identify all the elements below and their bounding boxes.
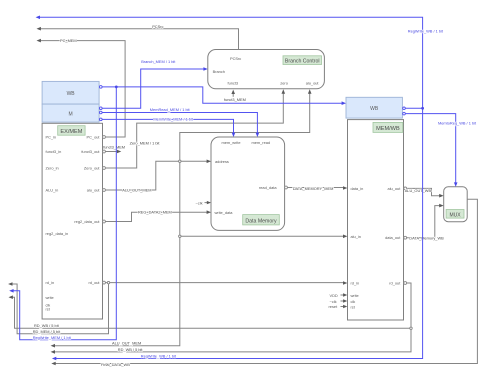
EX/MEM pipeline register U1 (main box) [42,123,102,319]
svg-text:WB: WB [67,91,76,97]
Branch Control U3 [208,50,325,89]
svg-text:WB: WB [370,106,379,112]
svg-text:Final_DATA_WB: Final_DATA_WB [101,362,130,367]
svg-text:write_data: write_data [215,210,234,215]
svg-text:~clk: ~clk [330,299,337,304]
svg-text:clk: clk [351,299,356,304]
svg-text:EX/MEM: EX/MEM [60,129,82,135]
svg-text:PC_out: PC_out [87,135,101,140]
svg-text:rd_out: rd_out [88,280,100,285]
MUX U5 [444,187,468,222]
svg-text:funct3_MEM: funct3_MEM [103,144,125,149]
EX/MEM pipeline register U1 (M control box) [42,104,99,122]
svg-text:reset: reset [329,304,339,309]
svg-text:Branch Control: Branch Control [285,59,320,65]
svg-text:MUX: MUX [449,212,461,218]
wire MemRead_MEM: EX/MEM.M to Data Memory.mem_read [102,113,259,138]
svg-text:RD_WB / 5 bit: RD_WB / 5 bit [118,347,144,352]
wire DATA_Memory_WB: MEM/WB.data_out to MUX input 2 [407,204,444,238]
wire WB control bundle: EX/MEM.WB to MEM/WB.WB [102,87,346,105]
svg-text:VDD: VDD [330,293,338,298]
wire DATA_MEMORY_MEM: Data Memory.read_data to MEM/WB.data_in [287,186,347,190]
svg-text:DATA_Memory_WB: DATA_Memory_WB [409,235,444,240]
wire MemtoReg_WB: MEM/WB.WB to MUX select [405,114,457,187]
node junction rd_mem [107,281,109,283]
MEM/WB stub ~clk [330,299,348,304]
svg-text:reg2_data_in: reg2_data_in [46,231,69,236]
MEM/WB port labels right [385,186,401,286]
svg-text:write: write [351,293,359,298]
EX/MEM port labels right [74,135,100,286]
svg-text:alu_out: alu_out [306,81,320,86]
svg-text:RegWrite_WB / 1 bit: RegWrite_WB / 1 bit [408,28,444,33]
MEM/WB stub reset [329,304,348,309]
wire funct3_MEM stub into Branch Control.funct3 [231,90,235,97]
wire ALU_OUT_MEM branch to Branch Control.alu_out [180,89,312,161]
svg-text:RD_WB / 5 bit: RD_WB / 5 bit [34,323,60,328]
wire ALU_OUT_MEM: EX/MEM.alu_out to Data Memory.address [105,160,211,191]
svg-text:alu_out: alu_out [388,186,402,191]
MEM/WB output port circles [403,107,407,284]
EX/MEM output port circles [100,86,106,284]
svg-text:PCSrc: PCSrc [230,56,241,61]
node junction alu address [179,160,181,162]
svg-text:alu_out: alu_out [87,188,101,193]
svg-text:funct3_MEM: funct3_MEM [224,97,246,102]
wire ALU_OUT_MEM branch down to MEM/WB.alu_in and to ID stage [51,161,348,347]
svg-text:MemtoReg_WB / 1 bit: MemtoReg_WB / 1 bit [438,121,477,126]
wire Zero_MEM: EX/MEM.Zero_out to Branch Control.zero [105,89,285,168]
wire funct3_MEM stub from EX/MEM.funct3_out [105,150,121,154]
svg-text:MemWrite_MEM / 1 bit: MemWrite_MEM / 1 bit [153,117,193,122]
wire RegWrite_WB: MEM/WB.WB to IF and ID stage [36,15,423,360]
svg-text:rd_out: rd_out [389,281,401,286]
svg-text:address: address [215,159,229,164]
wire PCSrc: Branch Control to IF stage [37,27,239,50]
svg-text:RegWrite_MEM / 1 bit: RegWrite_MEM / 1 bit [33,335,72,340]
svg-text:data_out: data_out [385,235,401,240]
svg-text:PC_in: PC_in [46,135,57,140]
node junction rd_wb [410,327,412,329]
svg-text:funct3_out: funct3_out [81,149,100,154]
EX/MEM pipeline register U1 (WB control box) [42,81,99,104]
svg-text:MEM/WB: MEM/WB [376,126,400,132]
svg-text:Branch_MEM / 1 bit: Branch_MEM / 1 bit [141,59,176,64]
Data Memory U4 [211,137,287,230]
node junction regwrite_wb [421,107,424,110]
svg-text:MemRead_MEM / 1 bit: MemRead_MEM / 1 bit [150,107,191,112]
svg-text:RegWrite_WB / 1 bit: RegWrite_WB / 1 bit [141,354,177,359]
svg-text:ALU_OUT_MEM: ALU_OUT_MEM [122,188,151,193]
svg-text:data_in: data_in [351,186,364,191]
wire RD_MEM: EX/MEM.rd_out to MEM/WB.rd_in and ID stage [8,281,347,334]
svg-text:ALU_OUT_WB: ALU_OUT_WB [405,188,432,193]
svg-text:Data Memory: Data Memory [245,218,277,224]
svg-text:M: M [69,111,73,117]
svg-text:Zero_MEM / 1 bit: Zero_MEM / 1 bit [130,140,161,145]
svg-text:funct3_in: funct3_in [46,149,62,154]
svg-text:rd_in: rd_in [351,281,360,286]
svg-text:alu_in: alu_in [351,234,361,239]
svg-text:RD_MEM / 5 bit: RD_MEM / 5 bit [33,329,61,334]
node junction regwrite_mem [115,86,118,89]
svg-text:Zero_out: Zero_out [84,166,100,171]
svg-text:rd_in: rd_in [46,280,55,285]
wire RegWrite_MEM rail to ID stage [9,87,116,340]
svg-text:Zero_in: Zero_in [46,166,59,171]
svg-text:ALU_OUT_MEM: ALU_OUT_MEM [112,341,141,346]
svg-text:Branch: Branch [213,69,225,74]
svg-text:zero: zero [280,81,288,86]
Data Memory stub ~clk [196,200,212,205]
wire REG_DATA2_MEM: EX/MEM.reg2_data_out to Data Memory.write_data [105,210,211,221]
MEM/WB port labels left [351,186,364,309]
svg-text:reg2_data_out: reg2_data_out [74,219,100,224]
wire RD_WB: MEM/WB.rd_out to bottom and ID stage [9,283,412,354]
svg-text:write: write [46,295,54,300]
wire ALU_OUT_WB: MEM/WB.alu_out to MUX input 1 [407,188,444,197]
MEM/WB pipeline register U2 (main box) [348,120,404,320]
MEM/WB pipeline register U2 (WB control box) [346,97,402,118]
wire PC_MEM: EX/MEM.PC_out to IF stage [37,39,126,137]
wire MemWrite_MEM: EX/MEM.M to Data Memory.mem_write [102,119,235,137]
svg-text:DATA_MEMORY_MEM: DATA_MEMORY_MEM [293,186,334,191]
svg-text:read_data: read_data [259,185,277,190]
EX/MEM port labels left [46,135,69,312]
svg-text:REG_DATA2_MEM: REG_DATA2_MEM [138,210,172,215]
wire Final_DATA_WB: MUX output to ID stage [51,199,477,365]
wire Branch_MEM: EX/MEM.M to Branch Control.Branch [102,67,208,108]
svg-text:ALU_in: ALU_in [46,188,59,193]
svg-text:mem_write: mem_write [222,140,241,145]
svg-text:~clk: ~clk [196,200,203,205]
node junction alu mem/wb [179,235,181,237]
svg-text:PCSrc: PCSrc [152,24,163,29]
MEM/WB stub VDD [330,293,348,298]
svg-text:mem_read: mem_read [252,140,271,145]
svg-text:PC_MEM: PC_MEM [60,38,77,43]
svg-text:funct3: funct3 [228,81,239,86]
